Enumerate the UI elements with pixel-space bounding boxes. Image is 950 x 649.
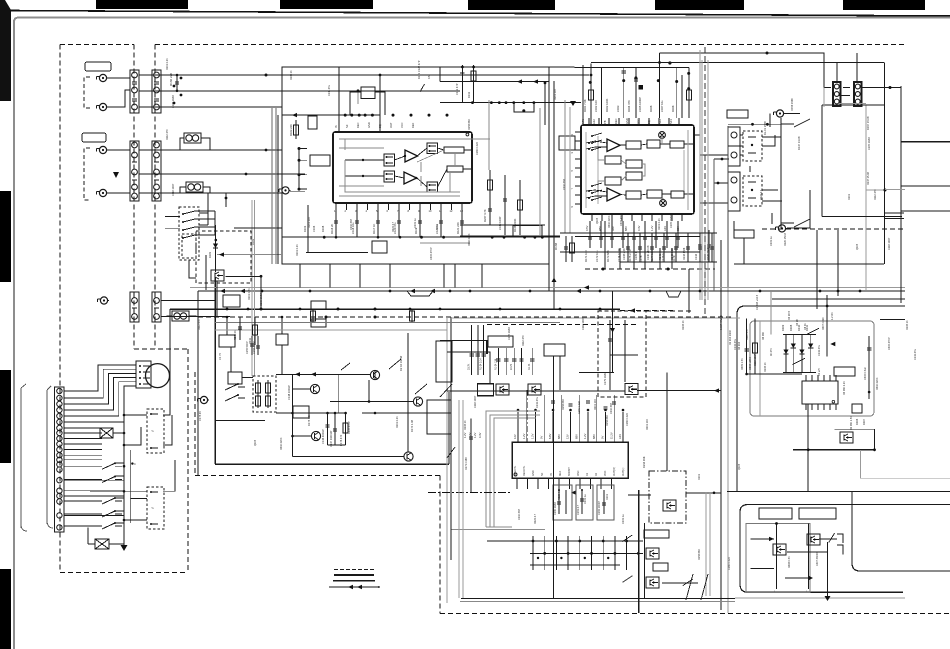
wire bead L601 loop	[180, 138, 210, 150]
boxed transistor Q401	[773, 544, 786, 555]
svg-text:C176: C176	[639, 255, 643, 262]
svg-text:R3 060 2.2K: R3 060 2.2K	[843, 381, 846, 395]
relay right wires	[770, 114, 810, 229]
svg-text:0V: 0V	[539, 436, 543, 439]
xbox lamp 1	[100, 428, 113, 438]
svg-text:4.4V: 4.4V	[478, 432, 482, 438]
right top section box	[737, 306, 905, 492]
IC1 shield loop 3	[494, 418, 536, 527]
svg-text:C118 100P: C118 100P	[888, 237, 891, 250]
svg-text:R162 100K: R162 100K	[605, 98, 609, 112]
vertical x=817	[816, 230, 818, 309]
svg-text:R310 220K: R310 220K	[876, 377, 879, 390]
svg-text:R147 13.08: R147 13.08	[797, 136, 801, 150]
left margin bracket	[21, 384, 27, 531]
top small comps x=462	[455, 65, 465, 103]
svg-text:C141 47u: C141 47u	[536, 397, 539, 408]
svg-text:C165 1000P: C165 1000P	[638, 97, 642, 112]
block A inner IC outline	[333, 132, 472, 203]
psu right string x=869	[864, 336, 871, 399]
bottom wires y=598.4	[461, 597, 735, 599]
dashed boundary y=475.5	[195, 475, 440, 477]
svg-text:22.70: 22.70	[510, 363, 513, 370]
svg-text:C149 100P: C149 100P	[498, 216, 502, 230]
servo junction dots	[291, 400, 376, 437]
block B op-amp U2b	[607, 188, 621, 201]
svg-text:C1 508 +12.5: C1 508 +12.5	[756, 294, 759, 310]
block B extra inner wires	[586, 132, 684, 208]
gray verticals x=459	[458, 400, 460, 598]
diode D308	[791, 344, 796, 349]
center bold wire 1	[486, 340, 488, 354]
right section bottom y=491.5	[727, 491, 950, 493]
svg-text:1.2V: 1.2V	[522, 433, 526, 439]
dashed center line y=317	[198, 316, 731, 319]
svg-text:12V: 12V	[513, 434, 517, 439]
wire y=102.6 between blocks	[440, 101, 581, 104]
wire x=570 vertical	[569, 107, 571, 233]
IC1 shield loop 1	[486, 411, 540, 527]
switch box A1	[384, 154, 395, 166]
svg-text:0.4V: 0.4V	[637, 225, 641, 231]
svg-text:R116 2K: R116 2K	[330, 224, 334, 234]
conn riser 2	[856, 53, 858, 82]
junction dots rail y=291	[261, 290, 264, 293]
jack circle right top	[774, 110, 786, 117]
svg-text:6BV: 6BV	[676, 226, 680, 231]
wire jack2	[108, 90, 130, 107]
block B to bus verticals	[619, 248, 621, 269]
servo vertical x=369	[369, 371, 375, 402]
block B bottom wire y=252	[560, 251, 700, 253]
svg-text:GND: GND	[367, 122, 371, 128]
gray jog symbol	[666, 291, 681, 297]
dot 890 87	[889, 86, 892, 89]
svg-text:R101 2.2K: R101 2.2K	[296, 244, 299, 256]
svg-text:R101 2.2K: R101 2.2K	[658, 218, 661, 230]
wire input y=150	[139, 149, 282, 151]
block B top dots	[589, 72, 690, 90]
xbox1 wires	[64, 432, 125, 435]
vertical x=553.5 dark	[553, 356, 555, 598]
wire x=565 vertical	[564, 100, 566, 233]
svg-text:1.2 OK: 1.2 OK	[831, 312, 834, 320]
vertical x=901	[900, 86, 902, 303]
right loop y=216.5	[822, 216, 902, 218]
left bracket line x=47	[47, 386, 53, 528]
svg-text:1.2V: 1.2V	[650, 225, 654, 231]
dash-dot vertical x=527	[526, 390, 528, 442]
svg-text:R222 4.7: R222 4.7	[558, 489, 561, 500]
svg-text:GND: GND	[532, 470, 535, 476]
D168 cluster	[554, 236, 575, 262]
IC1 pin stubs top	[517, 412, 519, 442]
BR arrow wire	[785, 576, 813, 580]
wire stub y=141.7	[901, 141, 950, 143]
conn riser 1	[836, 63, 838, 83]
svg-text:C2 u7F: C2 u7F	[818, 367, 821, 376]
svg-text:R101 2.2K: R101 2.2K	[396, 416, 399, 428]
center bold wire 2	[610, 291, 615, 373]
gray jog symbol 2	[407, 291, 433, 296]
boxed transistor Q209	[528, 384, 541, 395]
svg-text:R234 39K: R234 39K	[642, 456, 646, 468]
junction dots y=115	[292, 113, 449, 117]
transistor Q201	[370, 370, 379, 379]
svg-text:R143 1568: R143 1568	[683, 247, 686, 260]
gray wire right loop	[866, 189, 885, 191]
svg-text:R1 204 1/2W: R1 204 1/2W	[729, 330, 732, 345]
center rect Q207	[478, 384, 494, 396]
label box mid	[559, 136, 575, 150]
svg-text:C315 470P: C315 470P	[348, 421, 351, 434]
servo rect SA	[219, 335, 235, 347]
wire input y=90.8	[139, 90, 460, 92]
block A left comp string	[289, 120, 299, 139]
svg-text:C105 10/16: C105 10/16	[172, 94, 175, 108]
servo dashed box	[253, 376, 276, 412]
label box RL bottom	[734, 230, 754, 238]
svg-text:C118 100P: C118 100P	[474, 395, 477, 408]
wire jack1-strip	[108, 77, 130, 79]
legend solid line	[333, 580, 375, 582]
top small comps x=474	[467, 65, 476, 103]
svg-text:D168: D168	[554, 242, 558, 250]
dashed inner top y=324.5	[487, 324, 638, 326]
block A bottom comp strings	[335, 210, 337, 237]
svg-text:R168: R168	[671, 105, 675, 112]
svg-text:R309 1.5K: R309 1.5K	[741, 358, 744, 370]
wire y=67.5 ext	[549, 66, 689, 68]
svg-text:C210 33P: C210 33P	[350, 219, 353, 230]
block A bottom rect	[372, 241, 387, 253]
component D181	[208, 225, 218, 272]
wire right cluster verticals	[627, 233, 629, 262]
psu junction dots	[745, 305, 876, 452]
svg-text:D101: D101	[698, 473, 701, 480]
IC1 right wire y=494.8	[628, 494, 651, 496]
block A bottom wire y=243	[420, 242, 470, 244]
svg-text:6.8V: 6.8V	[548, 433, 552, 439]
dashed boundary x=195	[194, 372, 196, 476]
svg-text:Q105: Q105	[254, 439, 257, 446]
mech lower wires	[64, 479, 124, 481]
component string x=490	[483, 170, 493, 225]
transistor Q205	[404, 452, 413, 461]
block A vertical x=308	[307, 205, 309, 253]
motor M1 terminal box	[136, 361, 151, 388]
relay jack vertical x=781	[780, 118, 782, 228]
svg-text:C210 33P: C210 33P	[518, 509, 521, 520]
U jog below wire	[514, 103, 534, 113]
svg-text:NF2: NF2	[658, 119, 662, 124]
block A inner wire 1	[345, 148, 472, 178]
center wire y=340	[440, 339, 487, 341]
svg-text:C139 1: C139 1	[635, 251, 638, 260]
svg-text:R161 7.08: R161 7.08	[583, 99, 587, 112]
svg-text:OUT: OUT	[389, 122, 393, 128]
servo rect RD	[293, 406, 309, 418]
svg-text:C141 47u: C141 47u	[914, 349, 917, 360]
IC1 shield bottom	[486, 526, 512, 528]
switch row 5	[64, 522, 124, 529]
svg-text:R1 44: R1 44	[528, 363, 531, 370]
mech fan wires to motor	[64, 365, 136, 391]
relay pair RL2	[728, 172, 762, 211]
label box RL top	[727, 110, 748, 118]
svg-text:R176 470: R176 470	[339, 434, 343, 446]
jack J4	[97, 189, 109, 196]
dashed cluster line y=269	[585, 268, 715, 271]
wire x=667 to dashdot	[666, 373, 668, 471]
wires in center dashed box	[610, 320, 638, 390]
BR arrow stub 1	[750, 537, 774, 541]
rail y=322.6	[215, 322, 560, 324]
center wire y=391	[447, 390, 625, 392]
vertical x=545	[544, 83, 546, 125]
svg-text:C191 4.7: C191 4.7	[577, 504, 580, 515]
svg-text:R133 1K: R133 1K	[464, 420, 467, 430]
svg-text:R141: R141	[659, 253, 662, 260]
svg-text:C210 33P: C210 33P	[563, 179, 566, 190]
ladder dots	[532, 540, 535, 543]
svg-text:6BV: 6BV	[574, 434, 578, 439]
svg-text:REC: REC	[356, 122, 360, 128]
switch row 3	[64, 497, 124, 504]
svg-text:C315 470P: C315 470P	[430, 247, 433, 260]
block B pin stubs bottom	[591, 214, 593, 221]
block B op-amp U2a	[607, 139, 620, 152]
block A comp box R	[361, 87, 375, 99]
svg-text:1.2V: 1.2V	[531, 433, 535, 439]
op-amp U1b	[404, 172, 417, 184]
block B rect B6	[626, 172, 642, 180]
wire Q101 right	[226, 275, 263, 309]
svg-text:~: ~	[151, 506, 154, 512]
servo wire y=389 base	[293, 388, 311, 390]
center section right x=449	[448, 392, 450, 464]
svg-text:C105 10/16: C105 10/16	[260, 292, 263, 306]
svg-text:Q105: Q105	[596, 217, 599, 224]
servo wire y=436 base	[293, 435, 312, 437]
wire conn y=87.5	[824, 87, 831, 89]
svg-text:Q105: Q105	[856, 243, 859, 250]
svg-text:R222 4.7: R222 4.7	[392, 221, 395, 232]
series rect on bus	[311, 301, 326, 309]
mech vertical bus x=124	[121, 390, 128, 551]
vertical x=639 dark	[638, 490, 640, 613]
block A pin stubs bottom	[335, 203, 337, 210]
block B switch contacts 1	[591, 133, 602, 151]
servo vertical x=408	[407, 333, 409, 452]
wire x=560 down	[559, 356, 561, 390]
svg-text:C118 100P: C118 100P	[582, 317, 585, 330]
connector strip CN1b	[152, 70, 161, 113]
series rect lower	[311, 319, 326, 327]
ladder rail y=541	[487, 540, 643, 542]
main bus y=309	[170, 308, 676, 313]
left tall rect center-bottom	[427, 400, 451, 434]
wire block B out x=645	[644, 221, 646, 269]
svg-text:0.007 47u1 B: 0.007 47u1 B	[720, 315, 723, 330]
svg-text:C148 100UP: C148 100UP	[287, 385, 291, 400]
svg-text:RECCHL: RECCHL	[523, 465, 526, 476]
label box INPUT L	[85, 62, 111, 71]
vertical wire x=226 upper	[225, 193, 227, 207]
wire input y=172	[139, 173, 305, 175]
block A jog right	[513, 225, 542, 237]
psu wire y=429	[834, 428, 874, 430]
input comp squares	[173, 74, 268, 105]
relay area wires	[694, 135, 778, 203]
component strings right of B	[699, 230, 701, 262]
svg-text:C306 +22.5: C306 +22.5	[749, 356, 752, 370]
block B filter rect B1	[626, 141, 641, 149]
block B rect B7	[605, 177, 621, 185]
dashed boundary x=440	[439, 476, 441, 614]
svg-text:PB: PB	[603, 120, 607, 124]
svg-text:R145 7608: R145 7608	[707, 247, 710, 260]
svg-text:NF1: NF1	[669, 119, 673, 124]
resonator box X1	[553, 485, 572, 520]
block B rect B5	[626, 160, 642, 168]
label box ladder 2	[653, 563, 668, 571]
svg-text:R240 2K: R240 2K	[234, 330, 237, 340]
wire y=233 rail	[560, 232, 717, 234]
short line y=319.7	[880, 319, 905, 321]
switch upper 1	[225, 383, 245, 390]
svg-text:OUT(R): OUT(R)	[613, 467, 616, 476]
psu left string 2	[749, 319, 758, 374]
svg-text:Q105: Q105	[738, 463, 741, 470]
legend arrow line	[329, 585, 380, 589]
connector strip CN1a	[130, 70, 139, 113]
svg-text:C8 01: C8 01	[804, 323, 807, 330]
center dashed box	[598, 311, 646, 397]
svg-text:R133 1K: R133 1K	[682, 320, 685, 330]
svg-text:11.2V: 11.2V	[609, 432, 613, 439]
dashed left box bottom edge	[60, 572, 188, 574]
S601 input stubs	[165, 217, 180, 229]
legend thick line	[334, 574, 374, 576]
block A wire x=380 down	[379, 75, 381, 132]
boxed transistor Q303	[840, 432, 853, 443]
dashed boundary left box top edge	[60, 44, 134, 46]
block A label rect	[310, 155, 330, 166]
relay pair RL1	[728, 127, 762, 166]
servo cap strings mid	[325, 413, 348, 445]
right inner rounded box	[750, 321, 874, 416]
boxed transistor Q302	[646, 577, 659, 588]
wire jack3-strip	[108, 149, 130, 151]
wire x=689 down	[688, 269, 690, 313]
svg-text:D307: D307	[862, 418, 866, 425]
servo cap pair	[246, 336, 260, 355]
wire y=214	[884, 212, 904, 214]
svg-text:R156 68K: R156 68K	[562, 399, 565, 410]
connector strip CN3b	[152, 292, 161, 322]
left connector strip CN9	[55, 387, 65, 532]
dashed switch box S601	[179, 207, 199, 260]
jack J5	[98, 297, 110, 304]
rail res tap 2	[410, 310, 415, 323]
block B down triangle	[570, 101, 576, 106]
svg-text:C105 10/16: C105 10/16	[670, 214, 673, 228]
wire y=228 S601	[234, 227, 282, 229]
junction dots y=237 rail	[335, 236, 338, 239]
tiny box D306	[852, 404, 862, 413]
servo rect up stubs	[226, 316, 284, 335]
block B inner wires 2	[586, 190, 694, 198]
center tall rect	[436, 341, 452, 382]
svg-text:C1 75: C1 75	[218, 353, 222, 360]
switch box A2	[384, 171, 395, 182]
bottom right section box	[740, 505, 950, 593]
IC2 outline	[802, 381, 838, 404]
svg-text:RP29 1568: RP29 1568	[791, 98, 794, 111]
wire y=225 middle	[460, 224, 545, 226]
svg-text:D3 28 B: D3 28 B	[788, 311, 791, 320]
svg-text:~: ~	[151, 429, 154, 435]
block B inner wires 3	[598, 135, 663, 199]
block B IC outline	[581, 125, 694, 214]
wire input y=193	[139, 192, 284, 194]
component cluster under bus 1	[234, 317, 242, 340]
dot 885 190	[884, 189, 887, 192]
slant connector lines	[686, 574, 708, 600]
block B pin stubs top	[588, 118, 590, 125]
ladder rail y=553.4	[530, 552, 643, 554]
servo vertical SA down	[230, 347, 232, 372]
diode D311	[808, 344, 813, 349]
component cluster under bus 2	[249, 317, 258, 345]
block A left contact column	[298, 147, 308, 191]
dashed bracket lower	[84, 148, 90, 200]
svg-text:OUT(L): OUT(L)	[622, 468, 625, 477]
svg-text:C315 0.5uF: C315 0.5uF	[864, 366, 867, 380]
boxed transistor in dashdot	[663, 500, 676, 511]
registration top bar 5	[843, 0, 925, 10]
BR arrow stub 2	[750, 568, 774, 570]
servo jack	[198, 396, 210, 403]
svg-text:R121 C122 47P: R121 C122 47P	[417, 60, 421, 79]
psu wire y=374	[746, 373, 802, 375]
svg-text:C160 0.022: C160 0.022	[476, 141, 479, 155]
svg-text:R133 1K: R133 1K	[906, 320, 909, 330]
svg-text:REC: REC	[614, 118, 618, 124]
block B filter rect B3	[670, 141, 684, 148]
wire stub y=211	[901, 210, 950, 212]
dashed boundary left box left edge	[59, 45, 61, 573]
mech wires to relay RL4	[90, 460, 175, 520]
servo diag 5	[440, 384, 452, 397]
dashed vertical x=155	[154, 45, 156, 350]
cap in center box	[608, 339, 612, 341]
svg-text:0.5V: 0.5V	[585, 225, 589, 231]
svg-text:C141 47u: C141 47u	[328, 85, 331, 96]
psu wire y=298.8	[772, 298, 905, 300]
registration left bar 4	[0, 569, 11, 649]
svg-text:C167 10u: C167 10u	[660, 100, 664, 112]
registration corner wedge	[0, 0, 11, 101]
svg-text:D306: D306	[855, 418, 859, 425]
relay opto box RL3	[147, 409, 164, 453]
IC1 pin stubs bottom	[516, 478, 518, 489]
block B bottom wire y=236	[575, 236, 700, 238]
block A inner wire 4	[345, 139, 460, 192]
signal bus line y=291	[198, 290, 905, 292]
diode cluster verticals	[786, 335, 811, 373]
